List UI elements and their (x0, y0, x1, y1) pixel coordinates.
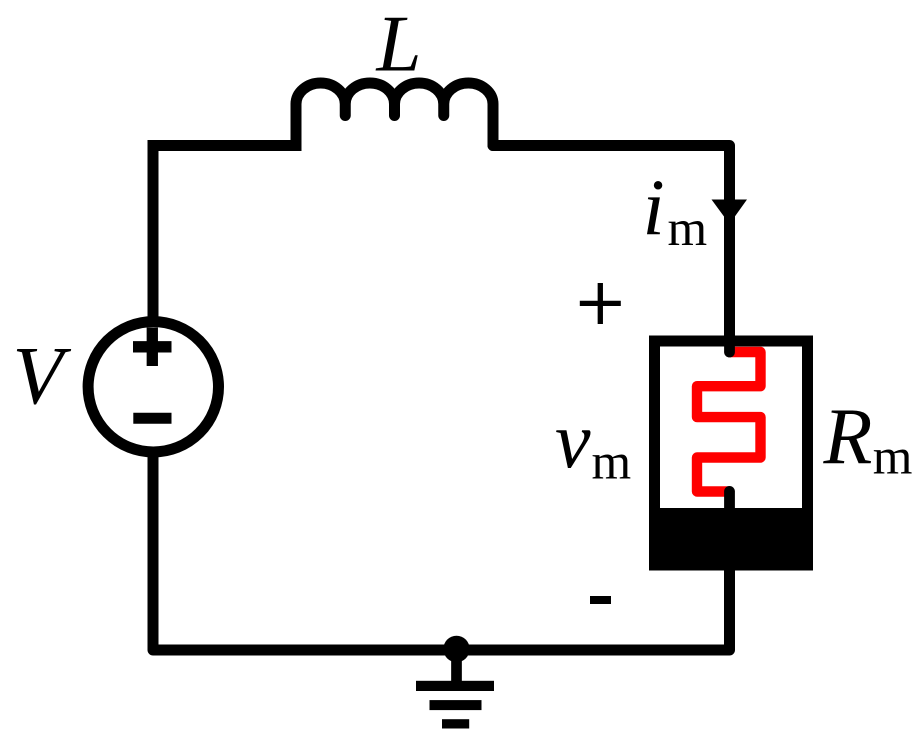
svg-text:R: R (823, 393, 873, 481)
svg-text:L: L (376, 0, 422, 89)
svg-text:m: m (668, 201, 708, 257)
svg-text:i: i (643, 165, 665, 253)
polarity plus (memristor top) (580, 283, 621, 324)
svg-text:m: m (592, 434, 632, 490)
polarity minus (memristor bottom) (590, 596, 611, 604)
voltage source plus sign (133, 328, 172, 367)
memristor top terminal stub (724, 338, 735, 352)
voltage source minus sign (133, 413, 171, 424)
inductor L (296, 83, 493, 146)
wire top horizontal right (inductor to right corner) (493, 146, 730, 337)
memristor R_m box (655, 341, 808, 565)
svg-text:v: v (555, 397, 591, 485)
memristor red meander (697, 352, 761, 492)
memristor bottom terminal stub (724, 491, 735, 515)
svg-text:V: V (13, 330, 72, 422)
wire left vertical lower (source to bottom corner) (153, 458, 456, 650)
wire bottom horizontal right (456, 565, 730, 650)
wire top horizontal left (corner to inductor) (153, 140, 296, 151)
voltage source V circle (88, 322, 218, 452)
ground junction node dot (443, 636, 469, 662)
svg-text:m: m (873, 430, 913, 486)
wire left vertical (source to top corner) (148, 146, 159, 317)
ground symbol (416, 649, 494, 729)
memristor bottom fill (649, 508, 813, 571)
arrow i_m (current direction) (712, 200, 748, 225)
